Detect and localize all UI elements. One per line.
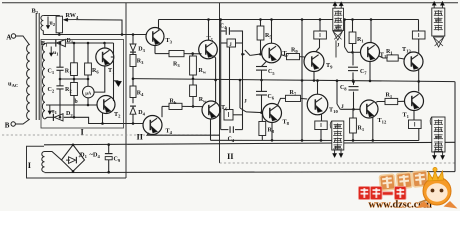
capacitor C4 (top, across relay J) xyxy=(221,30,226,32)
wire right column x113.5 xyxy=(113,43,115,101)
RW4 wiper arrow xyxy=(65,19,77,21)
svg-text:R3: R3 xyxy=(137,59,144,66)
winding B1 (main secondary) xyxy=(42,44,45,120)
wire mid common rail xyxy=(133,79,455,82)
resistor R3 horizontal xyxy=(169,51,184,57)
svg-text:J: J xyxy=(244,99,247,105)
resistor R6 xyxy=(85,63,92,75)
svg-text:R7: R7 xyxy=(290,90,297,97)
wire D2 to T4 base line xyxy=(64,117,143,123)
svg-text:R3: R3 xyxy=(173,62,180,69)
transformer core xyxy=(35,13,37,120)
CB1 stem down xyxy=(335,40,337,57)
svg-text:Rw: Rw xyxy=(199,68,207,75)
svg-text:J: J xyxy=(337,43,340,49)
svg-text:D3: D3 xyxy=(138,47,145,54)
resistor R5 xyxy=(260,20,262,27)
wire branch x220.7 from rail xyxy=(220,20,222,130)
transistor T8 xyxy=(263,104,282,123)
transistor T4 xyxy=(143,116,162,135)
CB2 entry glyph xyxy=(433,37,443,47)
wire branch x238.4 with contact J stage2 xyxy=(239,80,241,108)
wire branch with contact J x344.6 xyxy=(344,20,346,48)
svg-text:II: II xyxy=(137,132,144,142)
wire D1 anode line y43 xyxy=(47,42,56,44)
wire T7 collector to rail xyxy=(271,20,273,44)
relay contact box J1 (pulse out) xyxy=(319,20,321,32)
transistor T13 output xyxy=(404,52,423,71)
svg-text:R4: R4 xyxy=(137,91,144,98)
control-gate box CB3 (bottom middle) xyxy=(332,121,344,150)
control-gate box CB4 (bottom right) xyxy=(432,117,445,152)
resistor R4 vertical xyxy=(130,86,136,98)
u1 arrow lower xyxy=(49,105,51,114)
relay aux box lower xyxy=(224,110,233,121)
svg-text:u1: u1 xyxy=(53,50,59,57)
wire long vertical x=302 xyxy=(301,20,303,141)
wire B2 loop to RW4 xyxy=(43,15,59,18)
section divider vertical x=219.5 (box III left edge) xyxy=(219,3,221,163)
box I (bottom-left rectifier box) border xyxy=(27,146,127,178)
transistor T10 xyxy=(307,94,328,115)
capacitor C4b lower xyxy=(221,129,229,131)
resistor R1 vertical top xyxy=(352,20,354,33)
wire B1 top to D1 line xyxy=(45,42,47,45)
resistor R1 horizontal xyxy=(385,98,398,104)
wire B1 bottom to D2 xyxy=(45,117,47,119)
wire J2 to T13 collector xyxy=(418,39,420,54)
resistor Rw upper xyxy=(192,54,194,56)
transistor T12 xyxy=(360,100,378,118)
transistor T1 xyxy=(96,48,114,66)
outer top border xyxy=(2,2,458,4)
wire mid junction row xyxy=(60,78,88,80)
box around amplifier stage I xyxy=(41,40,124,129)
svg-text:u2: u2 xyxy=(50,21,56,28)
contact J xyxy=(345,47,348,52)
wire RW4 wiper to drop xyxy=(76,20,122,35)
control-gate box CB1 (top middle) xyxy=(333,8,344,30)
capacitor C2 xyxy=(56,85,63,87)
wire T3 collector to rail xyxy=(158,20,160,30)
transistor T7 xyxy=(262,43,282,63)
capacitor C7 xyxy=(352,52,354,65)
transistor T2 xyxy=(97,96,115,114)
wire stage4 base line xyxy=(340,108,360,110)
control-gate box CB2 (top right) xyxy=(432,8,445,36)
u1 arrow upper xyxy=(50,47,52,56)
wire T13 emitter down crossing rail to T1 collector xyxy=(418,70,420,92)
wire T1 collector xyxy=(104,43,106,48)
potentiometer RW4 xyxy=(56,16,62,33)
transformer primary winding xyxy=(27,45,30,120)
contact J stage2 xyxy=(240,108,246,112)
wire D3/R3/R4/D4 chain column x133 xyxy=(132,35,134,45)
resistor R3 vertical xyxy=(130,55,136,67)
svg-text:C7: C7 xyxy=(360,69,367,76)
svg-text:R1: R1 xyxy=(65,69,72,76)
terminal B xyxy=(11,122,15,126)
svg-text:R8: R8 xyxy=(268,128,275,135)
svg-text:R6: R6 xyxy=(92,68,99,75)
CB1 entry glyph xyxy=(333,31,343,40)
wire relay to aux box xyxy=(229,47,231,110)
svg-text:u1: u1 xyxy=(52,109,58,116)
diode D2 xyxy=(54,114,63,121)
wire R1/R2 column xyxy=(73,43,75,63)
svg-text:C4: C4 xyxy=(228,137,235,144)
wire T2 emitter xyxy=(102,113,104,124)
u2 arrow xyxy=(47,17,49,29)
svg-text:D4: D4 xyxy=(138,110,145,117)
wire T11 emitter to mid rail xyxy=(369,62,371,81)
svg-text:C9: C9 xyxy=(114,157,121,164)
wire T6 emitter to bottom rail xyxy=(210,119,212,140)
wire b tap xyxy=(46,104,97,106)
svg-text:C5: C5 xyxy=(268,69,275,76)
wire T9 collector to J box 1 xyxy=(316,39,320,52)
wire J box 2 from rail corner xyxy=(418,20,420,32)
wire branch with contact J bottom xyxy=(336,81,338,104)
ground symbol xyxy=(114,80,119,82)
capacitor C9 electrolytic xyxy=(108,145,110,153)
wire T11 collector to rail xyxy=(370,20,372,43)
winding aux (box I) xyxy=(42,152,45,173)
wire right side of relay loop x242.5 xyxy=(242,31,244,130)
transistor T11 driver xyxy=(361,43,380,62)
wire supply+ line from bridge xyxy=(44,142,455,145)
svg-text:R1: R1 xyxy=(386,49,393,56)
svg-text:μA: μA xyxy=(85,90,92,95)
svg-text:b: b xyxy=(75,99,78,105)
wire stage1 base line with contact J xyxy=(243,53,245,55)
wire D1 to amp block xyxy=(66,42,113,44)
svg-text:II: II xyxy=(227,151,234,161)
resistor R9 horizontal xyxy=(281,55,287,57)
svg-text:R1: R1 xyxy=(386,93,393,100)
wire stage3 base line xyxy=(348,51,361,53)
diode D1 xyxy=(57,39,66,46)
wire emitter line to R3h xyxy=(155,53,169,55)
wire T3 emitter xyxy=(154,46,156,54)
wire winding to bridge xyxy=(45,152,62,161)
wire stage2 base line xyxy=(246,111,263,114)
svg-text:Rb: Rb xyxy=(170,98,177,105)
wire C1/C2 column xyxy=(59,43,61,67)
wire T9 emitter xyxy=(313,72,315,81)
section divider vertical x=126 (box II left edge) xyxy=(125,3,127,178)
wire T7 emitter / capacitor C5 xyxy=(262,62,267,67)
svg-text:D1: D1 xyxy=(67,38,74,45)
wire T8 collector to R10 xyxy=(277,98,286,106)
svg-text:R9: R9 xyxy=(291,48,298,55)
transistor T3 xyxy=(146,28,164,46)
relay box J2 xyxy=(412,31,425,39)
wire T5 emitter down to T6 xyxy=(214,56,216,102)
svg-text:R2: R2 xyxy=(65,87,72,94)
svg-text:C1: C1 xyxy=(48,69,55,76)
svg-text:C4: C4 xyxy=(220,23,227,30)
capacitor C1 xyxy=(56,66,63,68)
wire T4 emitter line xyxy=(147,133,220,135)
resistor R11 horizontal xyxy=(379,56,387,58)
wire T3 base line y34.5 xyxy=(43,34,146,36)
wire R3h to T5 base xyxy=(184,53,202,55)
dashed section line y=163 right (box III bottom) xyxy=(220,162,456,164)
resistor Rb horizontal xyxy=(162,105,169,107)
relay coil J box xyxy=(227,39,236,47)
wire T10 collector to mid rail xyxy=(317,81,319,95)
wire right-edge vertical return xyxy=(454,82,456,172)
watermark text zhao xin pian xyxy=(379,171,428,191)
wire Rb down to T4 collector xyxy=(161,106,163,117)
resistor Rw lower xyxy=(192,79,194,85)
wire T1 emitter to J box 4 xyxy=(413,111,415,121)
svg-text:A: A xyxy=(6,34,11,42)
winding B2 (top aux) xyxy=(41,16,43,31)
wire top rail +E xyxy=(159,19,419,21)
wire T12 emitter xyxy=(372,117,374,140)
wire T10 emitter to J box 3 xyxy=(321,114,323,121)
relay box J3 xyxy=(315,121,327,130)
wire A to primary xyxy=(16,36,30,45)
terminal A xyxy=(11,34,15,38)
capacitor C8 xyxy=(353,82,355,85)
svg-text:C2: C2 xyxy=(48,87,55,94)
svg-text:C6: C6 xyxy=(268,94,275,101)
transistor T9 xyxy=(304,52,324,72)
wire T12 collector to R1h xyxy=(375,102,385,103)
capacitor C6 xyxy=(261,80,263,91)
resistor R1 xyxy=(71,63,78,76)
svg-text:R1: R1 xyxy=(357,37,364,44)
transistor T5 xyxy=(199,40,218,59)
wire T5 collector to rail xyxy=(208,20,210,41)
microammeter uA xyxy=(83,86,95,98)
resistor R2 xyxy=(71,83,78,96)
wire ground return bottom xyxy=(45,172,456,173)
watermark mascot xyxy=(416,167,458,208)
resistor R10 horizontal xyxy=(286,95,301,101)
resistor R1 vertical bottom xyxy=(352,109,354,118)
svg-text:B: B xyxy=(5,121,10,129)
transistor T1 output xyxy=(405,92,424,111)
dashed section line y=135 left xyxy=(2,134,220,136)
diode D4 xyxy=(130,107,136,114)
wire T8 emitter xyxy=(271,123,273,141)
svg-text:R1: R1 xyxy=(358,126,365,133)
transistor T6 xyxy=(202,101,220,119)
resistor R8 xyxy=(261,113,263,121)
watermark text weiku red xyxy=(359,187,407,200)
svg-text:C8: C8 xyxy=(340,85,347,92)
diode D3 xyxy=(130,44,136,51)
wire T1 emitter to meter xyxy=(94,66,105,92)
wire R6/meter column xyxy=(87,43,89,63)
relay box J4 xyxy=(409,120,422,129)
wire B to primary xyxy=(15,120,29,125)
bridge rectifier D1-D4 xyxy=(62,145,85,172)
wire bottom pulse-return rail xyxy=(211,139,419,141)
